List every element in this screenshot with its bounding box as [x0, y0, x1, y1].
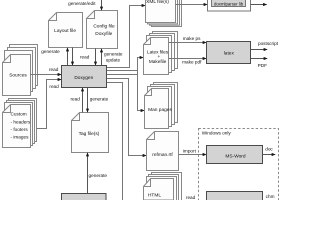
- svg-text:doc: doc: [265, 147, 273, 152]
- wire doc out: [263, 154, 276, 156]
- svg-text:- footers: - footers: [11, 127, 29, 132]
- HTML pages stack (bottom cut): [144, 173, 182, 201]
- svg-text:import: import: [183, 149, 197, 154]
- wire junction vertical (latex/man shared column): [137, 71, 139, 75]
- wire make pdf: [169, 58, 207, 60]
- wire Doxygen generate Layout file (up): [67, 48, 69, 66]
- box MS-Word: [207, 146, 263, 164]
- svg-text:chm: chm: [266, 194, 275, 199]
- document Layout file: [49, 13, 83, 48]
- svg-text:Doxyfile: Doxyfile: [95, 31, 112, 37]
- box HTML Help Workshop (cut at bottom): [207, 192, 263, 202]
- box Doxygen: [62, 66, 107, 88]
- wire import (refman to MS-Word): [179, 154, 207, 156]
- svg-text:read: read: [71, 96, 81, 101]
- Custom headers/footers/images stack: [3, 99, 37, 148]
- document Tag file(s): [72, 113, 109, 153]
- wire XML files to doxmlparser: [176, 4, 208, 6]
- box Doxytag (cut at bottom): [62, 194, 107, 204]
- wire PDF out: [251, 58, 268, 60]
- wire Custom read into Doxygen: [37, 80, 62, 129]
- svg-text:read: read: [186, 195, 196, 200]
- wire doxmlparser output: [251, 4, 267, 6]
- wire generate/edit into Config file: [101, 0, 103, 10]
- Sources stack: [3, 45, 38, 96]
- dashed box Windows only: [199, 129, 279, 204]
- document refman.rtf: [147, 132, 179, 171]
- svg-text:generate: generate: [90, 96, 109, 101]
- svg-text:Config file: Config file: [93, 23, 115, 29]
- wire Sources read into Doxygen: [31, 74, 62, 76]
- wire Doxygen generate Tag file (down): [87, 88, 89, 113]
- svg-text:read: read: [49, 84, 59, 89]
- svg-text:generate: generate: [89, 173, 108, 178]
- box doxmlparser lib: [212, 0, 246, 7]
- Man pages stack: [145, 83, 178, 129]
- wire Doxygen generate/update Config file (up): [101, 49, 103, 66]
- svg-text:generate: generate: [104, 51, 123, 56]
- svg-text:Makefile: Makefile: [149, 59, 167, 64]
- wire Doxytag generate Tag file (up): [87, 153, 89, 194]
- wire Doxygen to Latex files: [107, 58, 144, 71]
- wire Doxygen to Man pages: [107, 75, 145, 111]
- svg-text:- headers: - headers: [11, 119, 31, 124]
- Latex files + Makefile stack: [144, 32, 178, 75]
- svg-text:PDF: PDF: [258, 63, 268, 68]
- svg-text:postscript: postscript: [258, 41, 279, 46]
- svg-text:generate: generate: [41, 49, 60, 54]
- svg-text:Man pages: Man pages: [148, 107, 172, 113]
- box latex: [207, 42, 251, 64]
- svg-text:Custom: Custom: [11, 112, 27, 117]
- svg-text:Sources: Sources: [9, 72, 27, 78]
- wire Layout file read into Doxygen (down): [72, 48, 74, 66]
- svg-text:doxmlparser lib: doxmlparser lib: [214, 1, 244, 6]
- document Config file / Doxyfile: [87, 11, 118, 49]
- XML file(s) stack (top cut): [146, 0, 182, 27]
- svg-text:read: read: [80, 54, 90, 59]
- wire Doxygen to XML files: [107, 6, 146, 68]
- svg-text:update: update: [106, 57, 121, 62]
- wire Tag file read into Doxygen (up): [82, 88, 84, 113]
- wire Doxygen to refman.rtf: [107, 79, 147, 156]
- wire postscript out: [251, 49, 268, 51]
- wire Doxygen to HTML pages (down right side): [107, 83, 123, 201]
- wire Config file read into Doxygen (down): [95, 49, 97, 66]
- svg-text:refman.rtf: refman.rtf: [152, 152, 173, 158]
- svg-text:Windows only: Windows only: [202, 130, 232, 135]
- box Your application outer (cut at top): [208, 0, 251, 11]
- svg-text:generate/edit: generate/edit: [68, 1, 96, 6]
- svg-text:Layout file: Layout file: [54, 28, 76, 34]
- svg-text:Tag file(s): Tag file(s): [79, 131, 100, 137]
- svg-text:make pdf: make pdf: [182, 59, 202, 64]
- svg-text:Doxygen: Doxygen: [74, 75, 93, 81]
- svg-text:make ps: make ps: [183, 36, 201, 41]
- svg-text:read: read: [49, 67, 59, 72]
- wire make ps: [169, 42, 207, 44]
- svg-text:XML file(s): XML file(s): [146, 0, 169, 5]
- svg-text:latex: latex: [224, 51, 235, 57]
- svg-text:- images: - images: [11, 135, 30, 140]
- svg-text:HTML: HTML: [148, 193, 161, 199]
- svg-text:MS-Word: MS-Word: [225, 154, 245, 160]
